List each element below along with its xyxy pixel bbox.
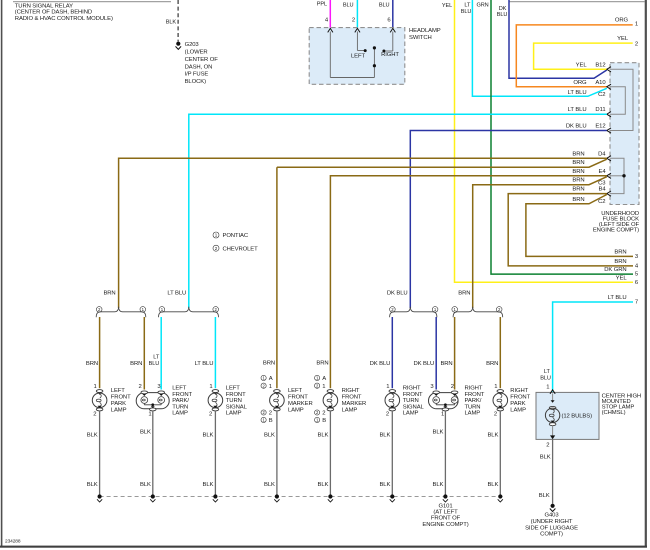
- svg-text:(UNDER RIGHT: (UNDER RIGHT: [531, 519, 573, 525]
- ground node right turn signal lamp: [390, 494, 394, 498]
- CHMSL box: [536, 392, 599, 439]
- svg-text:BLK: BLK: [487, 482, 498, 488]
- svg-text:(LOWER: (LOWER: [185, 50, 208, 56]
- svg-text:1: 1: [209, 384, 212, 390]
- svg-text:MARKER: MARKER: [288, 401, 313, 407]
- svg-text:BLK: BLK: [203, 482, 214, 488]
- svg-text:BLK: BLK: [264, 432, 275, 438]
- svg-text:FRONT OF: FRONT OF: [431, 516, 461, 522]
- svg-text:BLU: BLU: [149, 361, 160, 367]
- svg-text:SIGNAL: SIGNAL: [403, 404, 425, 410]
- svg-text:YEL: YEL: [442, 3, 452, 9]
- svg-text:LT BLU: LT BLU: [195, 361, 214, 367]
- svg-text:BLK: BLK: [379, 482, 390, 488]
- headlamp switch pin 6 arrow: [390, 28, 395, 32]
- svg-text:DK BLU: DK BLU: [387, 290, 408, 296]
- svg-text:LT BLU: LT BLU: [568, 90, 587, 96]
- svg-text:C3: C3: [598, 180, 606, 186]
- svg-text:PARK: PARK: [111, 401, 126, 407]
- svg-text:ENGINE COMPT): ENGINE COMPT): [422, 522, 468, 528]
- fuse block jumper A10-D11: [610, 87, 626, 114]
- svg-text:PARK: PARK: [510, 401, 525, 407]
- ground node left marker lamp: [275, 494, 279, 498]
- svg-text:LEFT: LEFT: [172, 386, 187, 392]
- fuse block jumper B12-E12: [610, 69, 634, 130]
- svg-text:1: 1: [322, 384, 325, 390]
- ground bus dashed line: [100, 496, 503, 498]
- svg-text:DK BLU: DK BLU: [566, 124, 587, 130]
- svg-text:BRN: BRN: [458, 290, 470, 296]
- svg-text:TURN: TURN: [226, 398, 242, 404]
- svg-text:B12: B12: [595, 62, 605, 68]
- svg-text:ORG: ORG: [573, 80, 587, 86]
- svg-text:BLU: BLU: [343, 3, 354, 9]
- fuse block jumper D4-E4-B4: [610, 158, 625, 193]
- svg-text:1: 1: [494, 384, 497, 390]
- lamp RIGHT FRONT MARKER LAMP: [315, 375, 320, 380]
- wire BRN right marker to E4: [330, 176, 606, 388]
- svg-text:BLK: BLK: [487, 432, 498, 438]
- svg-text:LT: LT: [464, 2, 471, 8]
- svg-text:G403: G403: [544, 512, 559, 518]
- svg-text:CENTER OF: CENTER OF: [185, 57, 219, 63]
- svg-text:1: 1: [441, 412, 444, 418]
- wire BRN trunk to D4 (left park feed): [119, 158, 607, 308]
- svg-text:LT: LT: [153, 355, 160, 361]
- svg-text:2: 2: [269, 411, 272, 417]
- svg-text:BLK: BLK: [318, 432, 329, 438]
- svg-text:LT BLU: LT BLU: [608, 295, 627, 301]
- svg-text:BLU: BLU: [379, 3, 390, 9]
- svg-text:BRN: BRN: [572, 187, 584, 193]
- svg-text:BRN: BRN: [263, 360, 275, 366]
- ground G203: [176, 42, 180, 46]
- svg-text:PONTIAC: PONTIAC: [223, 233, 249, 239]
- wire BRN pin3 to C2: [526, 195, 633, 257]
- svg-text:BRN: BRN: [572, 160, 584, 166]
- svg-text:BLK: BLK: [540, 454, 551, 460]
- svg-text:D4: D4: [598, 151, 606, 157]
- svg-text:2: 2: [635, 42, 638, 48]
- splice bracket LT BLU left: [159, 307, 219, 318]
- svg-text:1: 1: [546, 384, 549, 390]
- svg-text:TURN: TURN: [465, 404, 481, 410]
- ground G101: [443, 494, 447, 498]
- svg-text:BRN: BRN: [614, 249, 626, 255]
- svg-text:MARKER: MARKER: [342, 401, 367, 407]
- wire BLK dashed from turn signal relay to G203: [177, 0, 179, 42]
- svg-text:G203: G203: [185, 42, 200, 48]
- svg-text:COMPT): COMPT): [540, 532, 563, 538]
- lamp LEFT FRONT MARKER LAMP: [261, 375, 266, 380]
- svg-text:C2: C2: [598, 199, 605, 205]
- svg-text:DK GRN: DK GRN: [604, 267, 626, 273]
- svg-text:BLK: BLK: [433, 482, 444, 488]
- headlamp switch internal contacts: [329, 32, 331, 78]
- svg-text:BRN: BRN: [486, 361, 498, 367]
- svg-text:BLK: BLK: [433, 429, 444, 435]
- headlamp switch pin 4 arrow: [328, 28, 333, 32]
- svg-text:LT: LT: [544, 369, 551, 375]
- svg-text:BRN: BRN: [86, 361, 98, 367]
- svg-text:DK: DK: [499, 6, 507, 12]
- svg-text:BLK: BLK: [318, 482, 329, 488]
- svg-text:FRONT: FRONT: [226, 392, 246, 398]
- ground node left park lamp: [98, 494, 102, 498]
- svg-text:BLK: BLK: [140, 429, 151, 435]
- svg-text:A10: A10: [595, 80, 606, 86]
- svg-text:DASH, ON: DASH, ON: [185, 64, 213, 70]
- svg-text:HEADLAMP: HEADLAMP: [409, 28, 441, 34]
- svg-text:C2: C2: [598, 92, 605, 98]
- ground node right park lamp: [498, 494, 502, 498]
- svg-text:RADIO & HVAC CONTROL MODULE): RADIO & HVAC CONTROL MODULE): [15, 16, 113, 22]
- svg-text:CHEVROLET: CHEVROLET: [223, 246, 259, 252]
- svg-text:PARK/: PARK/: [172, 398, 189, 404]
- svg-text:BRN: BRN: [572, 169, 584, 175]
- svg-text:E4: E4: [598, 169, 606, 175]
- svg-text:2: 2: [494, 411, 497, 417]
- svg-text:SWITCH: SWITCH: [409, 35, 432, 41]
- svg-text:PARK/: PARK/: [465, 398, 482, 404]
- svg-text:BRN: BRN: [103, 290, 115, 296]
- svg-text:BRN: BRN: [316, 360, 328, 366]
- svg-text:SIGNAL: SIGNAL: [226, 404, 248, 410]
- svg-text:A: A: [269, 376, 273, 382]
- wire DK BLU to E12 (right turn feed): [410, 131, 607, 309]
- svg-text:LAMP: LAMP: [342, 407, 358, 413]
- svg-text:G101: G101: [438, 503, 452, 509]
- svg-text:LAMP: LAMP: [465, 411, 481, 417]
- svg-text:LAMP: LAMP: [288, 407, 304, 413]
- svg-text:BLK: BLK: [203, 432, 214, 438]
- svg-text:D11: D11: [595, 107, 605, 113]
- svg-text:1: 1: [269, 384, 272, 390]
- svg-text:FRONT: FRONT: [172, 392, 192, 398]
- svg-text:BRN: BRN: [572, 197, 584, 203]
- svg-text:LAMP: LAMP: [403, 411, 419, 417]
- svg-text:B4: B4: [598, 187, 606, 193]
- ground node left park/turn lamp: [151, 494, 155, 498]
- headlamp switch pin 2 arrow: [355, 28, 360, 32]
- svg-text:BLK: BLK: [87, 432, 98, 438]
- svg-text:BRN: BRN: [440, 361, 452, 367]
- svg-text:TURN SIGNAL RELAY: TURN SIGNAL RELAY: [15, 3, 73, 9]
- svg-text:A: A: [322, 376, 326, 382]
- svg-text:2: 2: [352, 18, 355, 24]
- svg-text:LEFT: LEFT: [351, 54, 366, 60]
- svg-text:1: 1: [94, 384, 97, 390]
- svg-text:2: 2: [209, 411, 212, 417]
- wire BRN pin4 to B4: [508, 194, 633, 266]
- svg-text:LEFT: LEFT: [111, 388, 126, 394]
- svg-text:TURN: TURN: [172, 404, 188, 410]
- svg-text:BLU: BLU: [540, 376, 551, 382]
- svg-text:2: 2: [451, 384, 454, 390]
- svg-text:FRONT: FRONT: [111, 395, 131, 401]
- legend Pontiac/Chevrolet: [213, 232, 219, 238]
- svg-text:1: 1: [148, 412, 151, 418]
- ground node left turn signal lamp: [213, 494, 217, 498]
- splice bracket BRN right: [453, 307, 503, 318]
- svg-text:BRN: BRN: [130, 361, 142, 367]
- svg-text:LAMP: LAMP: [172, 411, 188, 417]
- svg-text:234288: 234288: [5, 539, 21, 545]
- svg-text:E12: E12: [595, 124, 605, 130]
- svg-text:2: 2: [93, 411, 96, 417]
- svg-text:BLU: BLU: [497, 12, 508, 18]
- svg-text:1: 1: [635, 22, 638, 28]
- svg-text:LEFT: LEFT: [226, 386, 241, 392]
- svg-text:(12 BULBS): (12 BULBS): [562, 413, 593, 419]
- splice bracket DK BLU right: [390, 307, 437, 318]
- svg-text:BLK: BLK: [166, 20, 177, 26]
- svg-text:YEL: YEL: [617, 36, 629, 42]
- svg-text:2: 2: [546, 443, 549, 449]
- svg-text:2: 2: [139, 384, 142, 390]
- svg-text:ORG: ORG: [615, 18, 629, 24]
- CHMSL pin 2 arrow: [552, 426, 554, 437]
- svg-text:(CENTER OF DASH, BEHIND: (CENTER OF DASH, BEHIND: [15, 10, 92, 16]
- svg-text:RIGHT: RIGHT: [381, 52, 399, 58]
- svg-text:FRONT: FRONT: [510, 395, 530, 401]
- svg-text:DK BLU: DK BLU: [370, 361, 391, 367]
- ground node right marker lamp: [328, 494, 332, 498]
- svg-text:1: 1: [386, 384, 389, 390]
- svg-text:BRN: BRN: [572, 151, 584, 157]
- svg-text:BLK: BLK: [87, 482, 98, 488]
- svg-text:FRONT: FRONT: [403, 392, 423, 398]
- svg-text:(CHMSL): (CHMSL): [602, 410, 626, 416]
- svg-text:LAMP: LAMP: [226, 411, 242, 417]
- svg-text:FRONT: FRONT: [288, 395, 308, 401]
- svg-text:(AT LEFT: (AT LEFT: [433, 510, 458, 516]
- svg-text:B: B: [269, 418, 273, 424]
- svg-text:BRN: BRN: [572, 178, 584, 184]
- svg-text:LT BLU: LT BLU: [167, 290, 186, 296]
- svg-text:YEL: YEL: [576, 62, 588, 68]
- svg-text:SIDE OF LUGGAGE: SIDE OF LUGGAGE: [525, 525, 578, 531]
- svg-text:BLU: BLU: [461, 9, 472, 15]
- wire LT BLU to D11 (left turn feed): [189, 114, 607, 308]
- svg-text:BLK: BLK: [264, 482, 275, 488]
- svg-text:RIGHT: RIGHT: [465, 386, 483, 392]
- CHMSL bulb (12 bulbs): [549, 406, 556, 409]
- svg-text:B: B: [322, 418, 326, 424]
- svg-text:I/P FUSE: I/P FUSE: [185, 72, 209, 78]
- svg-text:YEL: YEL: [616, 275, 628, 281]
- svg-text:FRONT: FRONT: [342, 395, 362, 401]
- svg-text:LT BLU: LT BLU: [568, 107, 587, 113]
- svg-text:BLOCK): BLOCK): [185, 79, 206, 85]
- svg-text:ENGINE COMPT): ENGINE COMPT): [593, 228, 639, 234]
- svg-text:LEFT: LEFT: [288, 388, 303, 394]
- svg-text:TURN: TURN: [403, 398, 419, 404]
- svg-text:BRN: BRN: [614, 259, 626, 265]
- CHMSL pin 1 arrow: [550, 390, 555, 394]
- underhood fuse block box: [610, 63, 639, 205]
- svg-text:RIGHT: RIGHT: [403, 386, 421, 392]
- wire BRN right park trunk to C3: [473, 177, 607, 308]
- svg-text:LAMP: LAMP: [510, 407, 526, 413]
- svg-text:7: 7: [635, 299, 638, 305]
- svg-text:2: 2: [322, 411, 325, 417]
- splice bracket BRN left: [96, 307, 146, 318]
- svg-text:BLK: BLK: [379, 432, 390, 438]
- svg-text:BLK: BLK: [140, 482, 151, 488]
- svg-text:DK BLU: DK BLU: [414, 361, 435, 367]
- headlamp switch box: [309, 28, 405, 85]
- svg-text:BLK: BLK: [539, 493, 550, 499]
- svg-text:2: 2: [386, 411, 389, 417]
- svg-text:LAMP: LAMP: [111, 407, 127, 413]
- svg-text:PPL: PPL: [317, 2, 327, 8]
- ground G403: [551, 504, 555, 508]
- svg-text:RIGHT: RIGHT: [342, 388, 360, 394]
- svg-text:FRONT: FRONT: [465, 392, 485, 398]
- svg-text:GRN: GRN: [476, 2, 488, 8]
- svg-text:RIGHT: RIGHT: [510, 388, 528, 394]
